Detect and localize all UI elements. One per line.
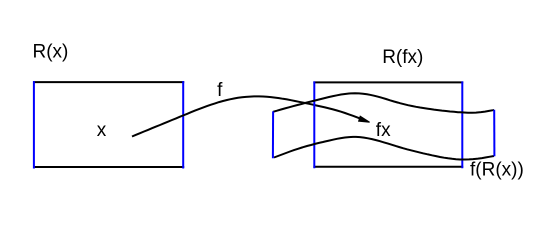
- region f(R(x)) band: left edge: [272, 111, 274, 158]
- rectangle R(fx) top edge: [313, 81, 463, 83]
- rectangle R(fx) bottom edge: [313, 166, 463, 168]
- arrow f from x to fx: curve: [132, 96, 360, 136]
- svg-text:R(x): R(x): [33, 41, 69, 62]
- svg-text:f: f: [217, 80, 223, 101]
- rectangle R(x) right edge: [182, 81, 184, 168]
- svg-text:x: x: [97, 120, 107, 141]
- rectangle R(fx) left edge: [313, 81, 315, 168]
- region f(R(x)) band: right edge: [493, 110, 495, 156]
- rectangle R(x) bottom edge: [33, 166, 184, 168]
- region f(R(x)) band: bottom curve: [274, 137, 494, 160]
- arrow f head: [359, 116, 370, 122]
- rectangle R(x) top edge: [33, 81, 184, 83]
- svg-text:fx: fx: [376, 120, 391, 141]
- svg-text:R(fx): R(fx): [382, 47, 423, 68]
- rectangle R(fx) right edge: [461, 81, 463, 168]
- region f(R(x)) band: top curve: [273, 93, 494, 112]
- svg-text:f(R(x)): f(R(x)): [470, 160, 524, 181]
- rectangle R(x) left edge: [33, 81, 35, 168]
